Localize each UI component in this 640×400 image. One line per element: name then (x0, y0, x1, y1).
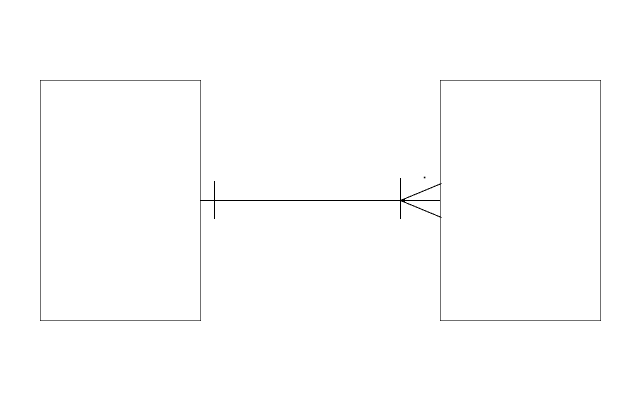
entity box right (440, 80, 601, 321)
crow's foot tick (400, 178, 402, 219)
relationship line (200, 200, 440, 202)
entity box left (40, 80, 201, 321)
crow's foot lower prong (401, 201, 442, 218)
one-cardinality tick (214, 181, 216, 219)
crow's foot upper prong (401, 184, 442, 201)
stray dot (424, 177, 426, 179)
crow's foot junction dot (402, 199, 405, 202)
